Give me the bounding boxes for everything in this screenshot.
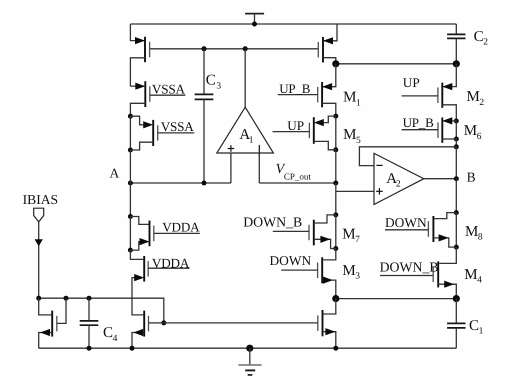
- svg-text:C: C: [474, 29, 484, 45]
- wire M3 drain lead: [323, 249, 336, 260]
- label M2: [467, 89, 485, 108]
- label C1: [469, 318, 484, 337]
- svg-text:M: M: [465, 224, 478, 240]
- svg-text:M: M: [342, 263, 355, 279]
- wire mid column to VCP node: [335, 150, 337, 183]
- nmos arrow MB2 source: [133, 329, 143, 336]
- svg-text:M: M: [467, 89, 480, 105]
- wire gate line A1 output net: [150, 48, 319, 50]
- svg-text:3: 3: [355, 272, 360, 282]
- label VSSA lower: [161, 119, 195, 134]
- svg-text:5: 5: [356, 136, 361, 146]
- junction gate line / C3: [202, 46, 207, 51]
- svg-text:M: M: [343, 127, 356, 143]
- wire MB1 source lead: [39, 333, 53, 349]
- junction left column upper: [128, 114, 133, 119]
- wire MB3 drain lead: [323, 299, 336, 314]
- node A junction: [128, 181, 133, 186]
- label UP_B at M6: [403, 115, 435, 130]
- wire M5 drain lead: [314, 141, 336, 149]
- transistor M7 NMOS: [309, 220, 314, 246]
- capacitor C3: [195, 94, 214, 99]
- junction M2/M6: [454, 119, 459, 124]
- label M5: [343, 127, 361, 146]
- junction left column lower: [128, 148, 133, 153]
- label C3: [206, 73, 222, 92]
- capacitor C2: [447, 34, 465, 38]
- wire bottom output node row: [336, 298, 457, 300]
- svg-text:DOWN_B: DOWN_B: [380, 259, 439, 274]
- wire mid column M5 span: [335, 116, 337, 150]
- svg-text:VDDA: VDDA: [152, 255, 190, 270]
- svg-text:C: C: [103, 325, 113, 341]
- junction rail/C4: [87, 346, 92, 351]
- nmos arrow M3 source: [323, 277, 333, 284]
- wire M5 source lead: [322, 116, 336, 123]
- wire C1 bottom: [455, 328, 457, 348]
- wire T1 drain lead: [130, 58, 145, 86]
- wire VDDA2 drain lead: [130, 250, 143, 259]
- junction bias/IBIAS: [36, 296, 41, 301]
- svg-text:VDDA: VDDA: [162, 219, 200, 234]
- wire M4 gate lead DOWN_B: [380, 275, 433, 277]
- junction node A mirror top: [128, 214, 133, 219]
- wire C4 top: [88, 298, 90, 321]
- label A1: [239, 127, 253, 146]
- label VSSA upper: [152, 81, 186, 96]
- junction VDD rail / power stub: [252, 22, 257, 27]
- transistor MB1 NMOS: [52, 311, 57, 337]
- junction bottom output node right (big): [453, 295, 460, 302]
- transistor top-left PMOS: [145, 37, 150, 62]
- wire M7 gate lead DOWN_B: [273, 230, 309, 232]
- wire VDDA1 source lead: [130, 242, 140, 251]
- label DOWN at M8: [385, 215, 427, 230]
- label DOWN at M3: [270, 253, 312, 268]
- label M6: [464, 123, 482, 142]
- wire C3 top: [203, 49, 205, 95]
- wire right column B to M8: [455, 179, 457, 213]
- pmos arrow M1 source: [322, 83, 332, 90]
- wire M2 gate lead UP: [402, 95, 438, 97]
- svg-text:VSSA: VSSA: [161, 119, 195, 134]
- wire VSSA1 gate lead: [150, 94, 186, 96]
- wire M3 gate lead DOWN: [281, 269, 317, 271]
- wire left column VSSA2 span: [129, 116, 131, 150]
- label M1: [343, 90, 361, 109]
- svg-text:2: 2: [483, 38, 488, 48]
- svg-text:3: 3: [216, 81, 221, 91]
- svg-text:IBIAS: IBIAS: [23, 192, 59, 207]
- svg-text:UP: UP: [287, 118, 304, 133]
- wire M4 drain lead: [439, 247, 456, 263]
- label UP at M2: [403, 75, 420, 90]
- wire mid column M7 span: [335, 215, 337, 249]
- label C2: [474, 29, 489, 48]
- op-amp A2 plus marker: [376, 188, 383, 195]
- wire MB2 gate lead: [149, 322, 164, 324]
- wire VDDA1 gate lead: [154, 232, 200, 234]
- label node B: [467, 169, 476, 184]
- transistor M5 PMOS: [309, 117, 313, 144]
- junction M7 bottom: [333, 246, 338, 251]
- wire M8 drain lead: [434, 213, 456, 219]
- wire node A: [130, 182, 231, 184]
- wire M4 source lead: [438, 284, 456, 298]
- label VDDA upper: [162, 219, 200, 234]
- nmos arrow MB3 source: [325, 328, 335, 335]
- wire M8 gate lead DOWN: [385, 229, 428, 231]
- transistor M3 NMOS: [318, 257, 323, 283]
- power symbol VDD: [245, 14, 264, 24]
- wire VDDA2 source lead: [132, 278, 143, 315]
- junction node B: [454, 176, 459, 181]
- svg-text:7: 7: [355, 235, 360, 245]
- op-amp A1 minus input marker: [258, 145, 260, 156]
- nmos arrow M4 source: [444, 281, 454, 288]
- wire A2 output: [424, 178, 457, 180]
- svg-text:M: M: [464, 123, 477, 139]
- wire M2 source lead: [443, 64, 456, 87]
- svg-text:4: 4: [477, 276, 482, 286]
- transistor VDDA2 PMOS: [144, 256, 148, 282]
- svg-text:2: 2: [479, 98, 484, 108]
- transistor VDDA1 PMOS: [150, 221, 154, 247]
- transistor M2 PMOS: [438, 83, 442, 108]
- transistor MB2 NMOS: [144, 311, 148, 337]
- wire bias line: [39, 298, 164, 323]
- junction rail/MB2: [130, 346, 135, 351]
- label IBIAS: [23, 192, 59, 207]
- junction bias/C4: [87, 296, 92, 301]
- wire mid column VCP to M7: [335, 183, 337, 215]
- svg-text:B: B: [467, 169, 476, 184]
- wire VSSA1 source lead: [130, 85, 144, 87]
- transistor M8 NMOS: [428, 216, 433, 242]
- wire right column M6 span: [455, 121, 457, 139]
- wire T2 source lead from VDD rail: [324, 24, 337, 41]
- op-amp A2 minus marker: [376, 164, 382, 166]
- wire M8 source lead: [433, 238, 456, 247]
- svg-text:M: M: [464, 267, 477, 283]
- label DOWN_B at M7: [243, 215, 302, 230]
- label UP at M5: [287, 118, 304, 133]
- junction bias drop / bottom gate line: [161, 320, 166, 325]
- svg-text:1: 1: [356, 98, 361, 108]
- junction rail/ground (big): [246, 345, 253, 352]
- junction bias/MB1 gate: [64, 296, 69, 301]
- op-amp A1: [217, 107, 274, 153]
- pmos arrow M6 source: [442, 117, 452, 124]
- label VDDA lower: [152, 255, 190, 270]
- port symbol IBIAS: [34, 208, 44, 222]
- junction VDDA mid: [128, 248, 133, 253]
- svg-text:VSSA: VSSA: [152, 81, 186, 96]
- svg-text:M: M: [342, 226, 355, 242]
- wire MB1 drain lead: [39, 298, 52, 315]
- wire right column to A2 output: [455, 147, 457, 179]
- wire T1 source lead from VDD rail: [130, 24, 144, 41]
- svg-text:C: C: [206, 73, 216, 89]
- svg-text:DOWN: DOWN: [270, 253, 312, 268]
- wire M1 gate lead UP_B: [278, 94, 318, 96]
- label M3: [342, 263, 360, 282]
- svg-text:1: 1: [249, 136, 254, 146]
- ground symbol: [238, 348, 261, 375]
- pmos arrow T1 source: [135, 37, 145, 44]
- svg-text:DOWN: DOWN: [385, 215, 427, 230]
- wire C4 bottom: [88, 325, 90, 348]
- junction M1/M5: [333, 114, 338, 119]
- pmos arrow M5 source: [314, 119, 324, 126]
- wire VDDA1 drain lead: [130, 217, 148, 225]
- svg-text:DOWN_B: DOWN_B: [243, 215, 302, 230]
- pmos arrow VSSA1 source: [135, 83, 145, 90]
- label M4: [464, 267, 482, 286]
- wire node A vertical to mirror: [129, 183, 131, 217]
- label V_CP_out: [276, 162, 312, 181]
- svg-text:8: 8: [478, 233, 483, 243]
- svg-text:UP_B: UP_B: [279, 81, 311, 96]
- wire A2 plus input: [336, 190, 374, 192]
- junction bottom output node left (big): [332, 295, 339, 302]
- op-amp A2: [374, 153, 424, 204]
- junction M8 bottom: [454, 245, 459, 250]
- wire right column M8 span: [455, 213, 457, 248]
- nmos arrow M7 source: [320, 236, 330, 243]
- wire A2 feedback: [359, 147, 456, 166]
- transistor VSSA upper PMOS: [145, 81, 150, 107]
- current arrow IBIAS: [35, 239, 43, 246]
- wire M7 drain lead: [315, 215, 336, 223]
- wire VDD rail: [130, 23, 456, 25]
- wire M1 drain lead: [322, 103, 336, 116]
- wire VSSA1 drain lead: [130, 103, 145, 116]
- label M8: [465, 224, 483, 243]
- wire C3 bottom: [203, 99, 205, 183]
- pmos arrow VSSA2 source: [143, 121, 153, 128]
- wire VSSA2 gate lead: [158, 132, 195, 134]
- wire ground rail: [39, 347, 457, 349]
- wire VDDA2 gate lead: [148, 267, 189, 269]
- op-amp A1 plus input marker: [228, 145, 235, 152]
- wire VSSA2 source lead: [130, 116, 143, 125]
- wire VCP_out: [259, 182, 336, 184]
- svg-text:A: A: [110, 166, 120, 181]
- transistor top-right PMOS: [318, 37, 323, 62]
- label A2: [386, 171, 401, 190]
- wire M2 drain lead: [442, 105, 456, 121]
- svg-text:2: 2: [396, 180, 401, 190]
- junction VCP node: [333, 181, 338, 186]
- junction M6 bottom: [454, 137, 459, 142]
- wire A1 plus input drop: [230, 153, 232, 183]
- wire A1 minus input drop: [258, 153, 260, 183]
- junction M8 top: [454, 210, 459, 215]
- svg-text:1: 1: [479, 327, 484, 337]
- junction top output node right (big): [453, 60, 460, 67]
- junction M7 top: [333, 212, 338, 217]
- wire right column feedback span: [455, 139, 457, 147]
- label node A: [110, 166, 120, 181]
- junction feedback: [454, 144, 459, 149]
- wire M6 gate lead UP_B: [402, 129, 438, 131]
- wire left column to node A: [129, 150, 131, 183]
- transistor M1 PMOS: [318, 82, 322, 107]
- wire C2 bottom to node: [455, 38, 457, 63]
- junction top output node left (big): [332, 60, 339, 67]
- wire MB3 source lead: [323, 332, 336, 349]
- svg-text:UP_B: UP_B: [403, 115, 435, 130]
- label C4: [103, 325, 118, 344]
- pmos arrow VDDA1 source: [140, 238, 150, 245]
- wire C1 top: [455, 299, 457, 324]
- svg-text:6: 6: [477, 132, 482, 142]
- wire VDD rail right drop to C2: [455, 24, 457, 34]
- label DOWN_B at M4: [380, 259, 439, 274]
- wire IBIAS down: [38, 222, 40, 298]
- transistor M6 PMOS: [438, 118, 442, 143]
- wire VSSA2 drain lead: [130, 142, 153, 150]
- wire M3 source lead: [322, 280, 336, 299]
- wire MB2 source lead: [132, 333, 144, 349]
- junction gate line / A1 output: [243, 46, 248, 51]
- wire A1 output to gate line: [244, 49, 246, 107]
- nmos arrow MB1 source: [40, 329, 50, 336]
- label M7: [342, 226, 360, 245]
- junction node A / C3 bottom: [202, 181, 207, 186]
- wire M6 source lead: [443, 120, 456, 122]
- wire bottom gate line: [164, 322, 318, 324]
- svg-text:C: C: [469, 318, 479, 334]
- transistor M4 NMOS: [433, 261, 438, 287]
- wire M5 gate lead UP: [273, 131, 310, 133]
- label UP_B at M1: [279, 81, 311, 96]
- svg-text:CP_out: CP_out: [284, 171, 312, 181]
- svg-text:UP: UP: [403, 75, 420, 90]
- wire M1 source lead: [323, 64, 336, 87]
- pmos arrow T2 source: [323, 37, 333, 44]
- wire top output node row: [336, 63, 457, 65]
- wire MB1 gate loop: [57, 298, 66, 323]
- svg-text:M: M: [343, 90, 356, 106]
- wire M6 drain lead: [442, 138, 456, 140]
- capacitor C1: [447, 323, 465, 328]
- transistor VSSA lower PMOS: [153, 120, 158, 146]
- svg-text:4: 4: [113, 334, 118, 344]
- capacitor C4: [80, 321, 99, 325]
- junction M5 bottom: [333, 147, 338, 152]
- nmos arrow M8 source: [439, 234, 449, 241]
- pmos arrow VDDA2 source: [134, 274, 144, 281]
- transistor MB3 NMOS: [318, 310, 323, 336]
- wire M7 source lead: [314, 239, 336, 248]
- wire left column VDDA1 span: [129, 217, 131, 251]
- pmos arrow M2 source: [442, 83, 452, 90]
- wire T2 drain lead: [323, 58, 336, 64]
- junction rail/MB3: [333, 346, 338, 351]
